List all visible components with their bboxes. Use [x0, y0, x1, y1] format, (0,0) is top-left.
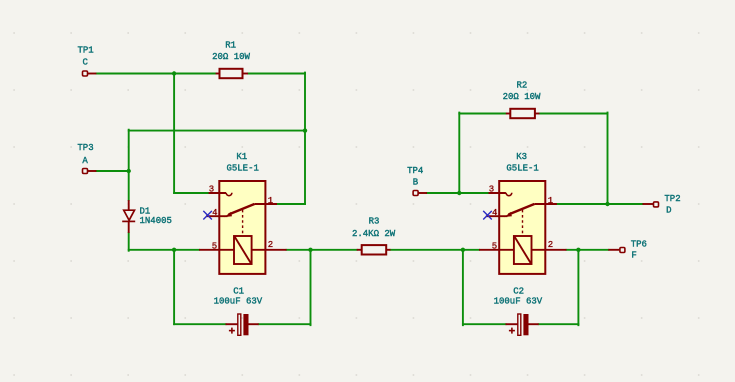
- svg-text:D: D: [666, 206, 671, 216]
- svg-text:3: 3: [489, 184, 494, 194]
- svg-text:A: A: [82, 156, 88, 166]
- svg-text:C2: C2: [513, 287, 524, 297]
- svg-text:20Ω 10W: 20Ω 10W: [212, 52, 250, 62]
- svg-text:F: F: [631, 251, 636, 261]
- svg-text:5: 5: [492, 241, 497, 251]
- svg-text:100uF 63V: 100uF 63V: [214, 296, 263, 306]
- svg-text:B: B: [413, 178, 419, 188]
- svg-text:R2: R2: [516, 80, 527, 90]
- svg-text:TP6: TP6: [631, 240, 647, 250]
- svg-text:G5LE-1: G5LE-1: [506, 163, 538, 173]
- svg-text:K3: K3: [516, 152, 527, 162]
- svg-text:3: 3: [209, 184, 214, 194]
- svg-text:5: 5: [212, 241, 217, 251]
- svg-text:TP4: TP4: [407, 166, 423, 176]
- svg-text:TP3: TP3: [77, 143, 93, 153]
- svg-text:20Ω 10W: 20Ω 10W: [503, 92, 541, 102]
- svg-text:G5LE-1: G5LE-1: [226, 163, 258, 173]
- svg-text:R1: R1: [225, 40, 236, 50]
- svg-text:R3: R3: [369, 217, 380, 227]
- svg-text:100uF 63V: 100uF 63V: [494, 296, 543, 306]
- svg-text:2.4KΩ 2W: 2.4KΩ 2W: [352, 229, 396, 239]
- svg-text:1N4005: 1N4005: [140, 216, 172, 226]
- svg-text:4: 4: [492, 208, 497, 218]
- svg-text:2: 2: [548, 240, 553, 250]
- svg-text:4: 4: [212, 208, 217, 218]
- svg-text:K1: K1: [236, 152, 247, 162]
- svg-text:TP1: TP1: [77, 46, 93, 56]
- svg-text:2: 2: [268, 240, 273, 250]
- svg-text:C: C: [82, 58, 88, 68]
- svg-text:C1: C1: [233, 287, 244, 297]
- svg-text:TP2: TP2: [664, 194, 680, 204]
- svg-text:1: 1: [268, 196, 273, 206]
- svg-text:1: 1: [548, 196, 553, 206]
